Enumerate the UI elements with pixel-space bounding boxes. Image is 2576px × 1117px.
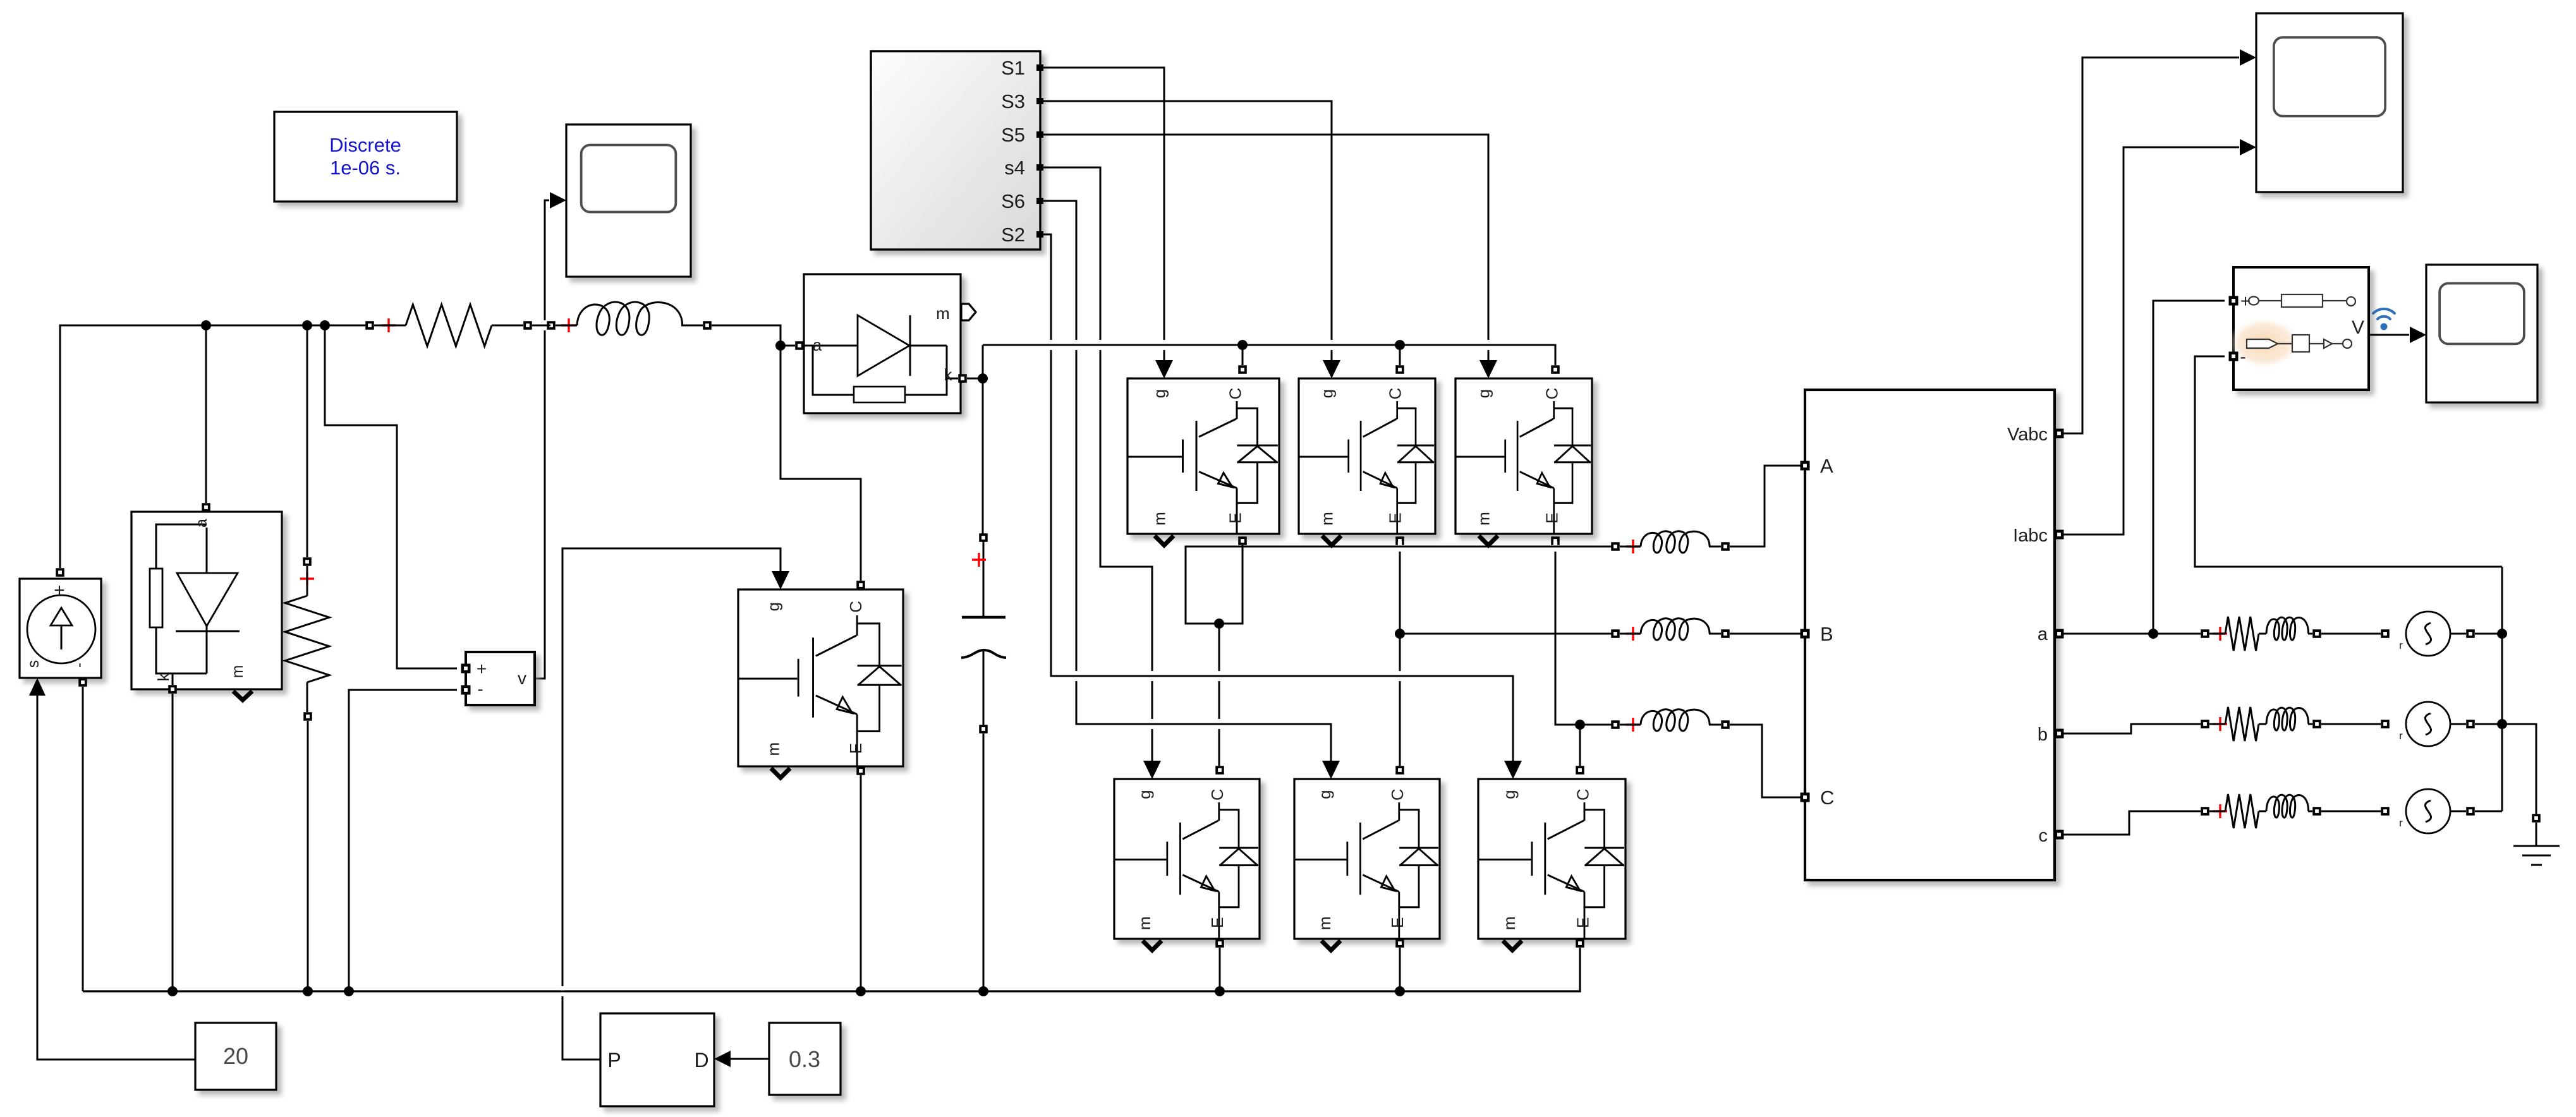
- Q5 m pentagon: [1479, 536, 1498, 545]
- AC source branch c left port: [2381, 807, 2390, 816]
- svg-text:C: C: [1543, 388, 1562, 400]
- filter inductor Lb left port: [1611, 629, 1620, 638]
- branch c resistor: [2225, 794, 2259, 828]
- scope Scope3: [2426, 265, 2537, 402]
- ground symbol: [2513, 823, 2560, 865]
- RL branch c left port: [2201, 807, 2209, 816]
- IGBT block Q1: [1127, 378, 1279, 534]
- wire branch b src to port: [2450, 723, 2466, 725]
- svg-text:r: r: [2399, 639, 2403, 651]
- PWM generator subsystem block S1-S6: [871, 51, 1040, 250]
- wire: inverter + bus: [983, 345, 1555, 365]
- node dot Q1 collector: [1237, 340, 1248, 350]
- PV diode a port: [202, 503, 210, 512]
- svg-text:g: g: [764, 602, 783, 611]
- svg-text:-: -: [70, 663, 88, 668]
- svg-text:s4: s4: [1004, 157, 1025, 179]
- red plus R1: [382, 318, 396, 332]
- arrow into Q2 gate: [1504, 761, 1522, 779]
- branch b coil: [2266, 708, 2309, 730]
- arrow into Q5 gate: [1479, 360, 1497, 378]
- svg-text:E: E: [846, 743, 865, 754]
- constant block 20: [195, 1023, 276, 1090]
- wire crossing hop: [1095, 340, 1106, 350]
- red plus branch c: [2213, 804, 2227, 818]
- Q6 C port: [1395, 766, 1404, 775]
- constant block 0.3: [769, 1023, 841, 1095]
- svg-text:m: m: [936, 304, 950, 323]
- wire crossing hop: [1146, 719, 1158, 729]
- filter inductor Lb right port: [1721, 629, 1730, 638]
- wire branch b mid: [2209, 723, 2312, 725]
- IGBT block Q4: [1114, 779, 1260, 939]
- wire: current source minus to bottom bus: [82, 687, 84, 991]
- node dot bus boost E: [856, 986, 866, 996]
- arrow into Scope1: [550, 192, 566, 208]
- AC voltage source branch b: [2399, 702, 2450, 746]
- Q3 m pentagon: [1322, 536, 1341, 545]
- filter inductor Lc coil: [1620, 724, 1641, 726]
- arrow into Q4 gate: [1143, 761, 1161, 779]
- arrow into Q1 gate: [1155, 360, 1173, 378]
- wire crossing hop: [1326, 340, 1337, 350]
- node dot phase B: [1395, 629, 1405, 639]
- wire Lc to right port: [1709, 724, 1721, 726]
- svg-text:0.3: 0.3: [789, 1046, 820, 1072]
- filter inductor Lc left port: [1611, 720, 1620, 729]
- PV diode k port: [168, 685, 177, 694]
- PWM output port notch: [1036, 98, 1043, 104]
- red plus Lc: [1626, 718, 1640, 732]
- capacitor bottom port: [979, 725, 988, 734]
- branch c coil: [2266, 795, 2309, 818]
- RL branch b left port: [2201, 720, 2209, 728]
- wire: Lc to measurement C: [1730, 725, 1801, 797]
- node dot v+ tap: [320, 320, 330, 330]
- wire branch a mid: [2209, 633, 2312, 635]
- svg-text:S6: S6: [1001, 190, 1025, 212]
- wire: phase B drop: [1399, 545, 1401, 634]
- wire branch b to source: [2321, 723, 2381, 725]
- wire L1 to port: [681, 325, 703, 327]
- svg-text:C: C: [1386, 388, 1405, 400]
- wire: Iabc to Scope2: [2063, 147, 2239, 534]
- Q6 m pentagon: [1321, 941, 1340, 950]
- wire R2 to bottom port: [307, 682, 308, 712]
- node dot neutral a: [2497, 629, 2507, 639]
- parallel resistor R2 zigzag: [307, 566, 308, 596]
- PWM output port notch: [1036, 64, 1043, 71]
- RL branch b right port: [2312, 720, 2321, 728]
- inductor L1 left port: [547, 321, 556, 330]
- PWM generator boost block P-D: [600, 1013, 714, 1106]
- svg-text:a: a: [2038, 624, 2048, 644]
- svg-text:c: c: [2039, 826, 2048, 846]
- wire: neutral to Vrms -: [2195, 356, 2502, 567]
- RL branch c right port: [2312, 807, 2321, 816]
- svg-text:S5: S5: [1001, 124, 1025, 146]
- RL branch a left port: [2201, 629, 2209, 638]
- wire: PV k to bottom bus: [172, 694, 174, 991]
- wire between ports: [532, 325, 547, 327]
- svg-text:s: s: [25, 660, 42, 668]
- red plus L1: [562, 318, 576, 332]
- Q1 C port: [1238, 365, 1247, 374]
- Q5 E port: [1551, 536, 1560, 545]
- node dot R branch tap: [302, 320, 312, 330]
- arrow into D: [714, 1051, 731, 1067]
- wire crossing hop: [557, 986, 568, 996]
- svg-text:E: E: [1573, 917, 1592, 928]
- series resistor R1 zigzag: [374, 325, 406, 327]
- wire: a phase out: [2063, 633, 2201, 635]
- wire: k port to node: [967, 378, 978, 380]
- DC link capacitor C1: [961, 540, 1006, 725]
- measurement Iabc port: [2055, 530, 2064, 540]
- filter inductor Lb coil: [1620, 633, 1641, 635]
- wire branch c to source: [2321, 811, 2381, 812]
- wire: boost IGBT E to bottom bus: [860, 775, 862, 991]
- measurement c port: [2055, 830, 2064, 840]
- AC source branch b right port: [2466, 720, 2475, 728]
- svg-text:A: A: [1820, 455, 1833, 477]
- measurement b port: [2055, 729, 2064, 739]
- svg-text:k: k: [155, 673, 173, 681]
- inductor L1 coil: [556, 325, 577, 327]
- Q1 m pentagon: [1155, 536, 1174, 545]
- svg-text:m: m: [1500, 916, 1519, 930]
- svg-text:m: m: [1318, 512, 1337, 526]
- arrow Scope2 in2: [2240, 139, 2256, 155]
- wire La to right port: [1709, 546, 1721, 548]
- svg-text:B: B: [1820, 623, 1833, 645]
- svg-text:E: E: [1226, 512, 1245, 523]
- wire: phase C rail: [1580, 724, 1615, 726]
- svg-text:g: g: [1315, 790, 1334, 799]
- wire branch a src to port: [2450, 633, 2466, 635]
- svg-text:P: P: [607, 1049, 621, 1072]
- IGBT block Q5: [1455, 378, 1592, 534]
- wire: cathode node up to inverter + bus: [982, 345, 984, 374]
- boost diode m output pentagon: [961, 304, 976, 320]
- wire: v1 minus to bottom bus: [349, 690, 457, 991]
- svg-text:-: -: [477, 679, 483, 699]
- voltage measurement RMS block: [2228, 267, 2369, 390]
- current source s input arrow: [29, 678, 46, 696]
- boost diode block D1: [804, 274, 961, 413]
- wire: R2 to bottom bus: [307, 721, 309, 991]
- wire: phase B rail: [1400, 633, 1615, 635]
- measurement Vabc port: [2055, 429, 2064, 438]
- wire S5 to leg3 top gate: [1040, 135, 1488, 361]
- ground port: [2532, 814, 2541, 823]
- red plus R2: [300, 572, 314, 586]
- parallel resistor R2 top port: [303, 557, 312, 566]
- wire: neutral to ground: [2502, 724, 2536, 814]
- branch a resistor: [2225, 617, 2259, 651]
- v1 - port: [461, 685, 471, 695]
- red plus La: [1626, 540, 1640, 553]
- wire: La to measurement A: [1730, 466, 1801, 546]
- svg-text:C: C: [1388, 788, 1407, 800]
- capacitor top port: [979, 533, 988, 542]
- inductor L1 right port: [703, 321, 712, 330]
- wire crossing hop: [1213, 671, 1225, 681]
- wire: v+ sense route: [325, 325, 457, 668]
- node dot Q3 collector: [1395, 340, 1405, 350]
- series resistor R1 right port: [523, 321, 532, 330]
- arrow into Q3 gate: [1323, 360, 1340, 378]
- wire: cathode node down to capacitor: [982, 383, 984, 536]
- Q4 E port: [1215, 939, 1224, 948]
- Q2 C port: [1576, 766, 1584, 775]
- node dot bus R2: [303, 986, 313, 996]
- wire crossing hop: [1071, 340, 1082, 350]
- voltage measurement block v1: [466, 652, 535, 705]
- svg-text:Discrete: Discrete: [329, 134, 401, 156]
- measurement a port: [2055, 629, 2064, 639]
- IGBT block Q2: [1478, 779, 1625, 939]
- svg-text:r: r: [2399, 730, 2403, 742]
- svg-text:b: b: [2038, 725, 2048, 745]
- node dot neutral b: [2497, 719, 2507, 729]
- wire: neutral bus right: [2475, 567, 2502, 811]
- PWM output port notch: [1036, 164, 1043, 171]
- svg-text:S2: S2: [1001, 224, 1025, 246]
- svg-text:C: C: [1208, 788, 1227, 800]
- wire S6 to leg2 bottom gate: [1040, 201, 1331, 761]
- svg-text:k: k: [944, 365, 953, 384]
- svg-text:v: v: [518, 668, 526, 688]
- svg-text:g: g: [1474, 389, 1493, 398]
- svg-text:+: +: [477, 659, 487, 679]
- svg-text:m: m: [1150, 512, 1169, 526]
- svg-text:Iabc: Iabc: [2013, 526, 2048, 546]
- branch a coil: [2266, 617, 2309, 640]
- wire crossing hop: [1146, 671, 1158, 681]
- node dot phase A: [1214, 619, 1224, 629]
- wire crossing hop: [1483, 340, 1494, 350]
- svg-text:S1: S1: [1001, 57, 1025, 79]
- wire: Q6 E to bus: [1399, 948, 1401, 991]
- svg-text:1e-06 s.: 1e-06 s.: [330, 157, 401, 179]
- wire: Lb to measurement B: [1730, 633, 1801, 635]
- svg-text:m: m: [1315, 916, 1334, 930]
- node dot bus v1-: [344, 986, 354, 996]
- wire: Scope1 input from voltage measurement v: [535, 200, 549, 679]
- wire: Q1 C drop: [1242, 345, 1244, 365]
- svg-text:+: +: [54, 580, 65, 601]
- AC source branch a left port: [2381, 629, 2390, 638]
- measurement B port: [1801, 629, 1810, 639]
- wire crossing hop: [1045, 340, 1057, 350]
- IGBT block Q3: [1299, 378, 1435, 534]
- node dot bus leg2: [1395, 986, 1405, 996]
- arrow Scope2 in1: [2240, 49, 2256, 66]
- Q4 m pentagon: [1143, 941, 1162, 950]
- parallel resistor R2 bottom port: [303, 712, 312, 721]
- wire: capacitor to bottom bus: [983, 734, 985, 991]
- AC voltage source branch c: [2399, 789, 2450, 833]
- AC source branch a right port: [2466, 629, 2475, 638]
- boost diode a port: [795, 341, 804, 350]
- svg-text:a: a: [193, 519, 210, 528]
- wire: bottom DC bus: [83, 948, 1580, 991]
- boost IGBT m pentagon: [771, 768, 790, 778]
- measurement C port: [1801, 793, 1810, 802]
- Vrms + port: [2229, 296, 2239, 306]
- node dot bus leg1: [1215, 986, 1225, 996]
- svg-text:a: a: [813, 335, 822, 354]
- svg-text:E: E: [1388, 917, 1407, 928]
- wire crossing hop: [1394, 541, 1406, 552]
- IGBT block boost IGBT: [738, 589, 903, 766]
- svg-text:m: m: [229, 665, 246, 679]
- red plus branch a: [2213, 627, 2227, 641]
- svg-text:C: C: [1226, 388, 1245, 400]
- svg-text:Vabc: Vabc: [2007, 425, 2048, 445]
- PV diode block: [131, 512, 282, 689]
- svg-text:20: 20: [223, 1043, 248, 1069]
- svg-text:E: E: [1543, 512, 1562, 523]
- red plus capacitor: [972, 553, 986, 567]
- svg-text:C: C: [1573, 788, 1592, 800]
- svg-text:S3: S3: [1001, 90, 1025, 112]
- Q2 m pentagon: [1503, 941, 1522, 950]
- wire: phase A loop: [1186, 545, 1615, 624]
- node dot diode cathode: [978, 373, 988, 383]
- red plus Lb: [1626, 627, 1640, 641]
- boost IGBT E port: [856, 766, 865, 775]
- filter inductor La right port: [1721, 542, 1730, 551]
- arrow into boost gate g: [772, 571, 789, 589]
- node dot diode anode: [775, 341, 786, 351]
- node dot PV anode tap: [201, 320, 211, 330]
- wire: Q3 C drop: [1399, 345, 1401, 365]
- svg-text:V: V: [2352, 317, 2364, 338]
- Q3 E port: [1395, 536, 1404, 545]
- svg-text:m: m: [1135, 916, 1154, 930]
- scope Scope2: [2256, 13, 2403, 192]
- IGBT block Q6: [1294, 779, 1440, 939]
- node dot phase C: [1575, 720, 1585, 730]
- svg-text:m: m: [764, 742, 783, 756]
- wire: Vrms out to Scope3: [2369, 334, 2409, 336]
- wire: R branch riser: [307, 325, 308, 557]
- RL branch a right port: [2312, 629, 2321, 638]
- filter inductor La coil: [1620, 546, 1641, 548]
- svg-text:m: m: [1474, 512, 1493, 526]
- svg-text:g: g: [1150, 389, 1169, 398]
- wire Lb to right port: [1709, 633, 1721, 635]
- v1 + port: [461, 664, 471, 673]
- wire S1 to leg1 top gate: [1040, 68, 1164, 361]
- svg-text:E: E: [1386, 512, 1405, 523]
- wire: phase C drop: [1555, 545, 1580, 725]
- arrow into Scope3: [2410, 327, 2426, 343]
- current source - port: [78, 678, 87, 687]
- arrow into Q6 gate: [1322, 761, 1340, 779]
- series resistor R1 left port: [365, 321, 374, 330]
- wire: phase B to Q6 collector: [1399, 634, 1401, 766]
- wire: Q4 E to bus: [1219, 948, 1221, 991]
- wifi icon: [2373, 309, 2395, 330]
- PV diode m pentagon: [233, 691, 252, 700]
- wire crossing hop: [539, 320, 550, 330]
- wire: Vabc to Scope2: [2063, 57, 2239, 433]
- wire: a tap to Vrms +: [2153, 301, 2225, 634]
- svg-text:E: E: [1208, 917, 1227, 928]
- node dot a measure tap: [2148, 629, 2158, 639]
- wire s4 to leg1 bottom gate: [1040, 167, 1152, 761]
- node dot bus PV k: [167, 986, 178, 996]
- wire: P output to boost gate: [562, 548, 781, 1060]
- wire crossing hop: [1158, 340, 1170, 350]
- svg-text:C: C: [1820, 787, 1834, 809]
- AC source branch c right port: [2466, 807, 2475, 816]
- scope Scope1: [566, 124, 691, 277]
- powergui block Discrete 1e-06 s.: [274, 112, 457, 202]
- svg-text:C: C: [846, 601, 865, 613]
- Q3 C port: [1395, 365, 1404, 374]
- svg-text:-: -: [2240, 347, 2245, 366]
- AC source branch b left port: [2381, 720, 2390, 728]
- PWM output port notch: [1036, 198, 1043, 204]
- wire S3 to leg2 top gate: [1040, 101, 1332, 361]
- branch b resistor: [2225, 707, 2259, 741]
- Vrms - port: [2229, 352, 2239, 361]
- wire: PV anode riser: [205, 325, 207, 503]
- Q5 C port: [1551, 365, 1560, 374]
- wire branch c mid: [2209, 811, 2312, 812]
- Q4 C port: [1215, 766, 1224, 775]
- wire crossing hop: [1071, 671, 1082, 681]
- wire S2 to leg3 bottom gate: [1040, 234, 1513, 761]
- PWM output port notch: [1036, 131, 1043, 138]
- PWM output port notch: [1036, 231, 1043, 238]
- wire R1 to port: [492, 325, 523, 327]
- wire crossing hop: [1550, 541, 1561, 552]
- svg-text:r: r: [2399, 817, 2403, 829]
- wire: 0.3 to D input: [729, 1058, 769, 1060]
- wire branch a to source: [2321, 633, 2381, 635]
- wire branch c src to port: [2450, 811, 2466, 812]
- svg-text:D: D: [694, 1049, 708, 1072]
- three-phase VI measurement block: [1805, 390, 2055, 880]
- Q1 E port: [1238, 536, 1247, 545]
- wire: c phase out: [2063, 811, 2201, 835]
- svg-text:g: g: [1135, 790, 1154, 799]
- boost IGBT C port: [856, 581, 865, 589]
- wire: phase C to Q2 collector: [1579, 725, 1581, 766]
- wire: diode a to port: [785, 345, 795, 347]
- svg-text:g: g: [1318, 389, 1337, 398]
- svg-text:g: g: [1500, 790, 1519, 799]
- boost diode k port: [958, 374, 967, 383]
- measurement A port: [1801, 461, 1810, 471]
- wire crossing hop: [1213, 719, 1225, 729]
- Q6 E port: [1395, 939, 1404, 948]
- controlled current source block: [20, 579, 101, 678]
- AC voltage source branch a: [2399, 612, 2450, 656]
- wire: top DC bus: [60, 325, 370, 568]
- wire: anode node down to boost IGBT collector: [781, 350, 861, 581]
- wire: phase A to Q4 collector: [1218, 624, 1220, 766]
- red plus branch b: [2213, 717, 2227, 731]
- node dot bus capacitor: [978, 986, 988, 996]
- wire L1 to boost diode: [712, 325, 781, 341]
- filter inductor Lc right port: [1721, 720, 1730, 729]
